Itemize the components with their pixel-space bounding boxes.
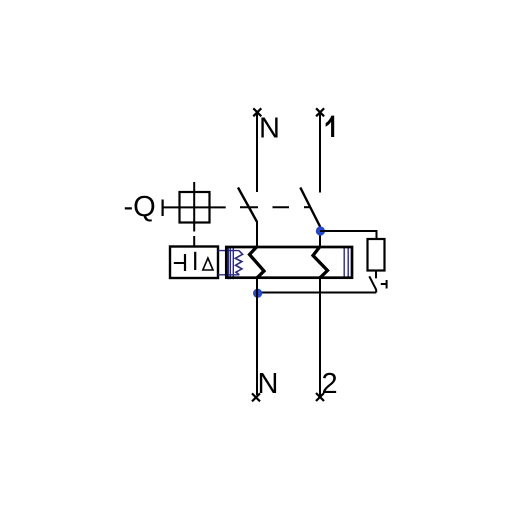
primary conductor 1 zigzag through CT xyxy=(313,247,328,278)
test pushbutton actuator T xyxy=(381,280,387,289)
label N bottom xyxy=(258,368,279,400)
test wire to resistor xyxy=(376,230,378,239)
label -Q xyxy=(124,191,156,223)
switch contact pole 1 (blade) xyxy=(300,188,320,227)
switch contact pole N (blade) xyxy=(238,188,257,222)
wire N top vertical xyxy=(256,113,258,192)
secondary winding lead bottom (blue) xyxy=(218,274,239,276)
terminal X bottom N xyxy=(252,393,260,401)
svg-text:-Q: -Q xyxy=(124,191,156,223)
terminal X top 1 xyxy=(316,108,324,116)
node junction bottom (blue dot) xyxy=(253,289,262,298)
test wire top horizontal xyxy=(320,230,377,232)
svg-text:N: N xyxy=(258,368,279,400)
dashed link to relay xyxy=(193,236,195,247)
primary conductor N zigzag through CT xyxy=(250,247,265,278)
relay symbol vertical bar 1 xyxy=(184,254,186,271)
terminal X top N xyxy=(253,108,261,116)
wire -Q horizontal xyxy=(163,206,226,208)
terminal X bottom 2 xyxy=(316,393,324,401)
manual operating mechanism square xyxy=(180,192,210,223)
secondary winding lead top (blue) xyxy=(218,250,239,252)
mechanical linkage dashed line xyxy=(240,206,311,208)
wire N bottom vertical xyxy=(256,278,258,396)
terminal tick of -Q drive xyxy=(162,200,164,217)
wire 1 middle vertical xyxy=(319,226,321,248)
secondary winding zigzag (blue) xyxy=(235,251,242,275)
current transformer core rectangle xyxy=(226,247,352,278)
svg-text:N: N xyxy=(259,113,280,145)
wire resistor to button xyxy=(375,271,377,279)
test resistor xyxy=(368,239,385,271)
CT core winding lines left (blue) xyxy=(228,247,233,280)
differential relay box xyxy=(170,247,218,279)
wire 1 top vertical xyxy=(319,113,321,193)
relay symbol horizontal bar xyxy=(174,262,185,264)
relay symbol triangle xyxy=(203,258,213,270)
test wire bottom horizontal xyxy=(258,292,376,294)
node junction top (blue dot) xyxy=(316,226,325,235)
label 1 top xyxy=(326,116,335,137)
svg-text:2: 2 xyxy=(322,368,338,400)
CT core winding lines right (blue) xyxy=(344,247,348,279)
wire button to bottom xyxy=(375,290,377,293)
wire 2 bottom vertical xyxy=(319,278,321,397)
wire N middle vertical xyxy=(256,221,258,248)
label 2 bottom xyxy=(322,368,338,400)
test pushbutton blade xyxy=(369,276,376,289)
label N top xyxy=(259,113,280,145)
mechanism cross vertical line xyxy=(193,182,195,232)
relay symbol vertical bar 2 xyxy=(194,252,196,270)
